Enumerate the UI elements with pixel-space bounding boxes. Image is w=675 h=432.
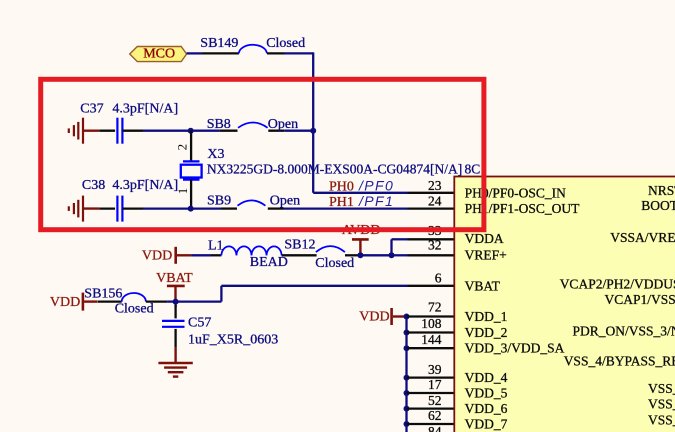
- svg-text:VDD: VDD: [142, 248, 172, 263]
- svg-text:52: 52: [428, 393, 442, 408]
- svg-text:PH0/PF0-OSC_IN: PH0/PF0-OSC_IN: [465, 185, 567, 200]
- svg-text:VDD_5: VDD_5: [465, 386, 508, 401]
- svg-text:VDD: VDD: [359, 309, 389, 324]
- svg-text:17: 17: [428, 377, 442, 392]
- svg-text:VCAP1/VSS_2: VCAP1/VSS_2: [605, 292, 675, 307]
- svg-text:108: 108: [421, 316, 442, 331]
- svg-text:VREF+: VREF+: [465, 247, 507, 262]
- svg-text:32: 32: [428, 238, 442, 253]
- svg-text:/PF0: /PF0: [358, 177, 394, 193]
- svg-text:62: 62: [428, 408, 442, 423]
- svg-text:VBAT: VBAT: [156, 271, 193, 286]
- svg-text:SB8: SB8: [207, 117, 231, 132]
- svg-text:Open: Open: [270, 194, 300, 209]
- svg-text:VDD: VDD: [50, 295, 80, 310]
- svg-text:Closed: Closed: [115, 301, 154, 316]
- svg-text:72: 72: [428, 300, 442, 315]
- svg-text:PH0: PH0: [329, 179, 354, 194]
- svg-text:4.3pF[N/A]: 4.3pF[N/A]: [112, 178, 178, 193]
- svg-text:23: 23: [428, 178, 442, 193]
- svg-text:NRST: NRST: [648, 183, 675, 198]
- svg-text:1: 1: [175, 188, 190, 195]
- svg-text:1uF_X5R_0603: 1uF_X5R_0603: [188, 333, 278, 348]
- svg-text:144: 144: [421, 332, 442, 347]
- svg-text:PH1: PH1: [329, 195, 354, 210]
- svg-text:NX3225GD-8.000M-EXS00A-CG04874: NX3225GD-8.000M-EXS00A-CG04874[N/A]: [207, 162, 462, 177]
- svg-text:SB149: SB149: [200, 36, 238, 51]
- svg-text:8C: 8C: [465, 162, 481, 177]
- svg-text:VDD_2: VDD_2: [465, 325, 508, 340]
- svg-text:C37: C37: [80, 101, 103, 116]
- svg-text:84: 84: [428, 424, 442, 432]
- svg-text:SB9: SB9: [207, 194, 231, 209]
- svg-text:39: 39: [428, 362, 442, 377]
- svg-text:Closed: Closed: [266, 36, 305, 51]
- svg-text:BEAD: BEAD: [250, 255, 288, 270]
- svg-text:Open: Open: [268, 117, 298, 132]
- svg-text:VDD_4: VDD_4: [465, 370, 508, 385]
- svg-text:L1: L1: [208, 239, 224, 254]
- svg-text:VSS_5: VSS_5: [648, 381, 675, 396]
- svg-text:VDD_3/VDD_SA: VDD_3/VDD_SA: [465, 341, 565, 356]
- svg-text:6: 6: [435, 270, 442, 285]
- svg-text:VSS_4/BYPASS_REG: VSS_4/BYPASS_REG: [564, 354, 675, 369]
- svg-text:4.3pF[N/A]: 4.3pF[N/A]: [112, 101, 178, 116]
- svg-text:VBAT: VBAT: [465, 278, 501, 293]
- svg-text:SB12: SB12: [284, 238, 315, 253]
- svg-text:VSSA/VREF-: VSSA/VREF-: [610, 230, 675, 245]
- svg-text:VSS_7: VSS_7: [648, 413, 675, 428]
- svg-text:BOOT0: BOOT0: [641, 198, 675, 213]
- svg-text:Closed: Closed: [315, 256, 354, 271]
- svg-text:MCO: MCO: [143, 47, 175, 62]
- svg-text:24: 24: [428, 194, 442, 209]
- svg-text:VCAP2/PH2/VDDUSB: VCAP2/PH2/VDDUSB: [560, 277, 675, 292]
- svg-text:2: 2: [174, 144, 189, 151]
- svg-text:VDD_1: VDD_1: [465, 309, 508, 324]
- svg-text:/PF1: /PF1: [358, 193, 394, 209]
- svg-text:SB156: SB156: [84, 286, 122, 301]
- svg-text:PDR_ON/VSS_3/NC: PDR_ON/VSS_3/NC: [573, 323, 675, 338]
- svg-text:C57: C57: [188, 316, 211, 331]
- svg-text:C38: C38: [82, 178, 105, 193]
- svg-text:X3: X3: [207, 147, 224, 162]
- svg-text:VDDA: VDDA: [465, 231, 504, 246]
- svg-text:VDD_7: VDD_7: [465, 417, 508, 432]
- svg-text:VSS_6: VSS_6: [648, 397, 675, 412]
- svg-text:VDD_6: VDD_6: [465, 401, 508, 416]
